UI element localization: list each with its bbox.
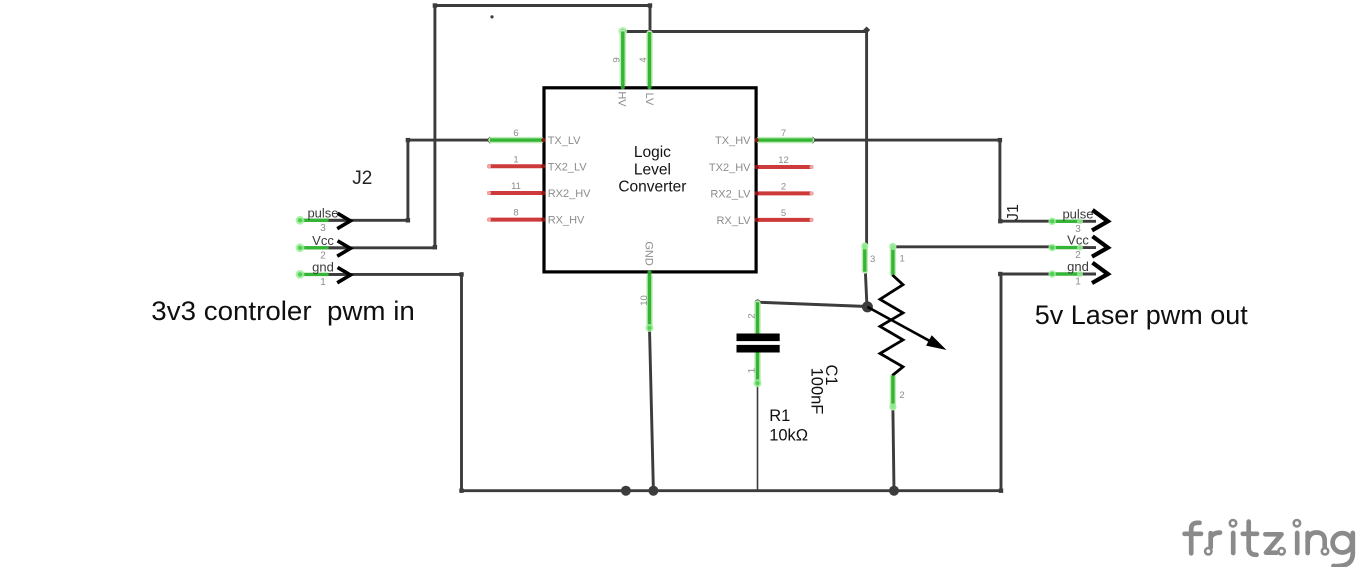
svg-text:3v3 controler pwm in: 3v3 controler pwm in (151, 296, 415, 326)
svg-text:11: 11 (511, 181, 521, 192)
svg-text:RX2_HV: RX2_HV (548, 188, 591, 200)
svg-text:J1: J1 (1005, 204, 1022, 221)
svg-text:5v Laser pwm out: 5v Laser pwm out (1035, 300, 1248, 330)
svg-text:pulse: pulse (307, 205, 338, 220)
svg-text:9: 9 (612, 57, 623, 62)
svg-text:3: 3 (320, 223, 326, 234)
svg-text:2: 2 (781, 181, 786, 192)
svg-text:3: 3 (870, 254, 875, 265)
svg-text:TX2_LV: TX2_LV (548, 161, 588, 173)
svg-text:5: 5 (781, 208, 786, 219)
svg-text:RX2_LV: RX2_LV (710, 188, 751, 200)
svg-text:LV: LV (643, 93, 655, 106)
svg-text:2: 2 (1075, 250, 1081, 261)
svg-text:1: 1 (900, 254, 905, 265)
svg-text:4: 4 (638, 57, 649, 62)
svg-text:10: 10 (639, 295, 650, 306)
svg-text:Level: Level (634, 162, 671, 179)
svg-text:1: 1 (513, 154, 518, 165)
svg-text:RX_LV: RX_LV (716, 215, 751, 227)
svg-text:1: 1 (320, 277, 326, 288)
svg-text:12: 12 (778, 155, 789, 166)
svg-text:Vcc: Vcc (312, 233, 334, 248)
svg-text:Vcc: Vcc (1067, 233, 1089, 248)
svg-text:2: 2 (747, 313, 758, 318)
svg-text:TX2_HV: TX2_HV (709, 162, 751, 174)
svg-text:7: 7 (781, 128, 786, 139)
svg-text:HV: HV (616, 91, 628, 107)
svg-text:1: 1 (1075, 277, 1081, 288)
svg-text:3: 3 (1075, 224, 1081, 235)
svg-text:2: 2 (899, 390, 904, 401)
svg-text:Logic: Logic (634, 144, 671, 161)
svg-text:8: 8 (513, 208, 518, 219)
svg-text:gnd: gnd (312, 259, 334, 274)
svg-text:TX_LV: TX_LV (548, 135, 581, 147)
svg-text:10kΩ: 10kΩ (769, 427, 808, 445)
svg-text:TX_HV: TX_HV (715, 135, 751, 147)
svg-text:GND: GND (643, 241, 655, 266)
svg-text:1: 1 (747, 368, 758, 373)
svg-text:2: 2 (320, 250, 326, 261)
svg-text:R1: R1 (769, 407, 790, 425)
svg-text:J2: J2 (352, 168, 372, 189)
svg-text:gnd: gnd (1067, 259, 1089, 274)
svg-text:RX_HV: RX_HV (548, 215, 585, 227)
svg-text:6: 6 (513, 128, 518, 139)
svg-text:Converter: Converter (618, 179, 686, 196)
svg-text:pulse: pulse (1062, 206, 1093, 221)
svg-text:100nF: 100nF (808, 368, 826, 415)
